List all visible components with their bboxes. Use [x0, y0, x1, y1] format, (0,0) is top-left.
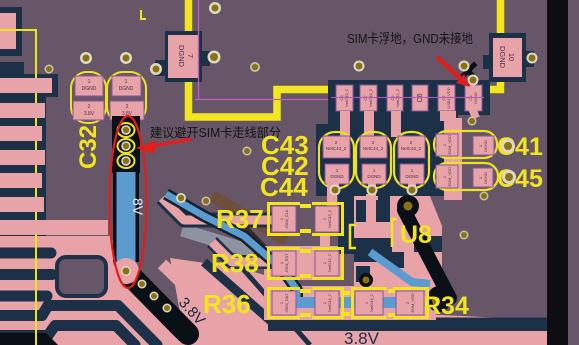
via right of U8 [460, 231, 469, 240]
wire trace finger f1 [0, 78, 52, 93]
capacitor C31 pad 2 3.8V [73, 101, 104, 120]
svg-text:DGND: DGND [483, 172, 488, 184]
svg-text:2: 2 [126, 104, 129, 110]
red ellipse annotation [110, 116, 147, 288]
via cap g2 bottom [367, 185, 378, 196]
pad C6 [412, 85, 428, 111]
wire trace finger f5 [0, 173, 42, 188]
trace stub R38 pad2 up [320, 236, 330, 252]
component 10 DGND top right [483, 55, 491, 69]
svg-text:DGND: DGND [330, 174, 344, 179]
via under pour [359, 273, 373, 287]
capacitor C32 pad 1 DGND [112, 76, 141, 96]
wire navy trace Ta [0, 306, 157, 345]
svg-text:NetC43_2: NetC43_2 [327, 209, 332, 228]
pink vertical band behind JSIM_VDD pads [444, 118, 462, 200]
svg-text:JSIM_VDD: JSIM_VDD [447, 135, 452, 155]
via near C41 [501, 139, 515, 153]
wire trace finger f2 [0, 103, 45, 118]
wire trace finger f7 [0, 220, 108, 235]
capacitor C31 column outline [71, 72, 106, 123]
svg-text:JSIM_CLK: JSIM_CLK [284, 209, 289, 228]
svg-text:3.8V: 3.8V [344, 329, 380, 345]
wire yellow line over bottom [35, 234, 37, 345]
wire trace finger f3 [0, 126, 42, 141]
via near C43 label [243, 147, 252, 156]
wire navy stub n1 [0, 248, 51, 259]
via below 10 DGND [468, 117, 477, 126]
trace to R37 pink horizontal [162, 198, 272, 220]
capacitor C44 group [356, 132, 391, 188]
via above pad C3 [354, 61, 365, 72]
capacitor C31 pad 1 DGND [75, 76, 103, 96]
via near R37 trace [202, 197, 211, 206]
red arrow to vias [153, 139, 191, 146]
svg-text:R37: R37 [216, 204, 264, 234]
wire yellow thick route right [487, 0, 501, 90]
top pads row: pad C3 [336, 85, 353, 111]
via near C45 [502, 170, 516, 184]
pad round end of 8V [113, 258, 139, 284]
via v1 circled [121, 125, 131, 135]
via at X marker [459, 61, 470, 72]
black diagonal trace right of U8 [404, 210, 450, 298]
pad C45.2 JSIM_VDD [436, 165, 458, 188]
svg-text:NetC43_2: NetC43_2 [326, 146, 347, 151]
pad C45.1 DGND [473, 168, 493, 187]
svg-text:R36: R36 [203, 289, 251, 319]
red arrow top right [437, 57, 462, 80]
svg-text:3.8V: 3.8V [84, 111, 95, 117]
wire trace finger f4 [0, 150, 45, 165]
pad R34.1 NetC44_2 [355, 291, 383, 315]
pad stubs down [340, 111, 350, 137]
pad C44.1 DGND [362, 164, 386, 184]
resistor R34 [427, 286, 451, 312]
wire yellow thin outline left [0, 30, 36, 345]
pink patch behind R38 row [264, 246, 344, 280]
svg-text:NetC44_2: NetC44_2 [363, 146, 384, 151]
svg-text:R38: R38 [211, 248, 259, 278]
via U7 right tab [208, 51, 221, 64]
svg-text:NetC44_2: NetC44_2 [327, 293, 332, 312]
blue diagonal in central pour [370, 252, 430, 284]
pad R34.2 JSIM_VDD [396, 291, 424, 315]
capacitor C42 group [394, 132, 429, 188]
capacitor C41 group [434, 131, 497, 158]
8V blue trace [113, 173, 139, 262]
corner component top-left [0, 7, 22, 56]
via d1 [138, 280, 147, 289]
trace to R38 [212, 242, 272, 262]
pad C41.1 DGND [473, 136, 494, 155]
via cap g1 bottom [330, 185, 341, 196]
pad C42.1 DGND [400, 164, 424, 184]
component U8 outline + label [392, 219, 397, 247]
pink patch behind R36 R34 row [264, 286, 436, 320]
pad C7 USB1_VDD [438, 85, 455, 111]
pink pour bottom left [0, 236, 186, 345]
svg-text:NetC42_2: NetC42_2 [401, 146, 422, 151]
svg-text:DGND: DGND [483, 140, 488, 152]
wire navy stub n2 [0, 269, 52, 280]
wire navy trace Tb [0, 326, 135, 345]
via below X marker [468, 75, 479, 86]
svg-text:DGND: DGND [82, 86, 97, 92]
svg-text:1: 1 [88, 79, 91, 85]
svg-text:10: 10 [507, 53, 516, 61]
central pink pour around U8 [354, 196, 442, 290]
via below C45 [480, 192, 489, 201]
via d2 [150, 292, 159, 301]
via cap g3 bottom [407, 185, 418, 196]
pad R38.1 JSIM_RST [272, 251, 296, 276]
via top row 2 [80, 52, 92, 64]
black corner bottom-left [0, 333, 58, 345]
wire yellow fleck [141, 10, 146, 19]
wire trace finger f6 [0, 197, 44, 212]
pad R37.1 JSIM_CLK [272, 206, 296, 232]
capacitor C43 group [319, 132, 354, 188]
trace stubs caps bottom to vias [331, 180, 339, 192]
wire navy stub n3 [0, 291, 47, 302]
navy region top right pads [316, 124, 445, 196]
svg-text:U8: U8 [400, 221, 432, 249]
navy notches in central pour [378, 196, 390, 222]
via top row 1 [45, 65, 54, 74]
grey highlighted wedge [182, 230, 254, 252]
trace stub cap G1 to R37 pad2 [327, 183, 337, 208]
via v3 circled [121, 156, 131, 166]
capacitor C32 column outline [107, 72, 146, 123]
svg-text:DGND: DGND [405, 174, 419, 179]
right black strip [547, 0, 568, 345]
svg-text:DGND: DGND [367, 174, 381, 179]
capacitor C32 pad 2 3.8V [110, 101, 144, 120]
svg-text:C44: C44 [260, 172, 308, 202]
blue trace JSIM_DAT [166, 194, 297, 300]
black bar under C32 pad [112, 116, 140, 173]
wire yellow thick route left [189, 0, 332, 117]
pad C43.2 NetC43_2 [323, 136, 350, 158]
component U7 7 DGND [155, 60, 166, 76]
svg-text:JSIM_DAT: JSIM_DAT [284, 293, 289, 313]
svg-text:DGND: DGND [177, 45, 186, 68]
svg-text:NetC42_2: NetC42_2 [327, 253, 332, 272]
pad R36.1 JSIM_DAT [272, 291, 296, 315]
svg-text:JSIM_RST: JSIM_RST [284, 253, 289, 273]
svg-text:DGND: DGND [498, 46, 507, 69]
svg-text:R34: R34 [423, 292, 469, 320]
pad C5 DGND [465, 85, 482, 111]
pad R38.2 NetC42_2 [315, 251, 339, 276]
big black via [397, 195, 419, 217]
via right of 10 DGND [527, 53, 538, 64]
pad C41.2 JSIM_VDD [436, 134, 458, 156]
via top edge [209, 2, 221, 14]
dashes between R36 and R34 [341, 291, 350, 295]
magenta room line over navy [331, 97, 484, 99]
via top row 3 [120, 52, 132, 64]
pad C2 [387, 85, 403, 111]
svg-text:1: 1 [125, 79, 128, 85]
svg-text:C32: C32 [75, 125, 102, 169]
pad C7 [360, 85, 377, 111]
pad C44.2 NetC44_2 [360, 136, 387, 158]
via U7 left tab [150, 63, 162, 75]
via left of R37 trace [176, 193, 186, 203]
svg-text:2: 2 [88, 104, 91, 110]
svg-text:DGND: DGND [119, 86, 134, 92]
magenta room outline [198, 0, 200, 99]
via top row 4 [250, 62, 260, 72]
svg-text:JSIM_VDD: JSIM_VDD [447, 167, 452, 187]
via d3 [163, 304, 172, 313]
pink pour bottom [170, 258, 547, 345]
pad C43.1 DGND [325, 164, 349, 184]
svg-text:SIM卡浮地，GND未接地: SIM卡浮地，GND未接地 [347, 31, 473, 46]
navy border band above bottom pour [204, 262, 547, 322]
svg-text:JSIM_VDD: JSIM_VDD [410, 293, 415, 313]
via v2 circled [121, 141, 131, 151]
purple island in pour [57, 257, 106, 296]
black X marker [452, 55, 483, 86]
pad C42.2 NetC42_2 [398, 136, 425, 158]
trace hook from C5 pad down [472, 108, 476, 118]
left connector ground plane [0, 62, 58, 244]
pad R37.2 NetC43_2 [315, 206, 339, 232]
capacitor C45 group [434, 163, 498, 190]
navy diag stripe crossing pour [228, 252, 310, 345]
pad R36.2 NetC44_2 [315, 291, 339, 315]
svg-text:7: 7 [186, 54, 195, 58]
svg-text:NetC44_2: NetC44_2 [369, 293, 374, 312]
svg-text:8V: 8V [130, 198, 146, 216]
brown traces near R37/R38 [212, 196, 286, 240]
pour finger diag [162, 264, 230, 330]
black diagonal trace with vias [126, 271, 188, 334]
